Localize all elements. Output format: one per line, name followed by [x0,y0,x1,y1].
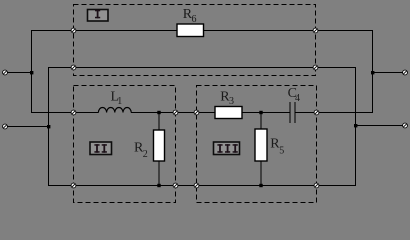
node marker box II right edge ladder wire [173,110,178,115]
wire left rail vertical [48,67,50,186]
wire terminal 4 lead [356,125,406,127]
node marker box I right edge top wire [313,28,318,33]
wire terminal 1 lead [5,72,32,74]
wire resistor R2 stem vertical [158,113,160,186]
junction dot R2 bottom [157,184,160,187]
node marker box III left edge ladder wire [194,110,199,115]
label R3 [220,90,234,108]
network block label I [88,10,109,22]
network block label II [90,142,112,155]
network block label III [214,142,240,155]
wire terminal 2 lead [5,126,49,128]
node marker box II right edge bottom rail [173,183,178,188]
label R2 [134,141,148,161]
resistor R6 body [177,24,204,37]
inductor L1 coil [98,107,131,112]
label C4 [288,86,300,104]
svg-text:2: 2 [143,149,148,160]
wire left vertical from top branch to ladder branch [31,30,33,113]
wire top branch horizontal [31,30,373,32]
wire resistor R5 stem vertical [260,113,262,186]
wire ladder branch horizontal mid part [131,112,290,114]
capacitor C4 plates [290,102,295,123]
node marker box II left edge ladder wire [71,110,76,115]
svg-text:6: 6 [192,14,197,25]
svg-text:5: 5 [279,146,284,157]
node marker box III right edge bottom rail [314,183,319,188]
node marker box I right edge middle rail [313,65,318,70]
terminal 4 [403,123,408,128]
wire right rail vertical [355,67,357,186]
junction dot terminal2 tap [47,125,50,128]
resistor R2 body [154,130,165,161]
wire terminal 3 lead [373,72,406,74]
terminal 1 [3,70,8,75]
dashed box III [197,86,317,203]
node marker box I left edge middle rail [71,65,76,70]
junction dot R2 top [157,111,160,114]
svg-text:3: 3 [229,96,234,107]
node marker box I left edge top wire [71,28,76,33]
junction dot terminal3 tap [371,71,374,74]
junction dot R5 top [259,111,262,114]
node marker box II left edge bottom rail [71,183,76,188]
label L1 [111,90,123,108]
terminal 2 [3,124,8,129]
node marker box III left edge bottom rail [194,183,199,188]
resistor R5 body [255,129,267,161]
wire bottom rail horizontal [48,185,356,187]
junction dot terminal4 tap [354,124,357,127]
wire middle rail horizontal [49,67,356,69]
wire ladder branch horizontal left part [31,112,98,114]
svg-text:4: 4 [295,93,300,104]
wire ladder branch horizontal right part [295,112,373,114]
junction dot terminal1 tap [30,71,33,74]
terminal 3 [403,70,408,75]
wire right vertical from top branch to ladder branch [372,30,374,113]
label R5 [270,137,284,157]
node marker box III right edge ladder wire [314,110,319,115]
label R6 [183,7,197,25]
dashed box II [74,86,176,203]
resistor R3 body [215,107,242,119]
svg-text:1: 1 [117,96,122,107]
junction dot R5 bottom [259,184,262,187]
dashed box I [74,5,316,76]
